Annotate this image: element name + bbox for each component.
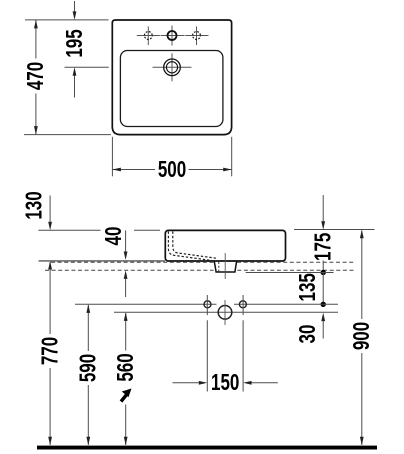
- dim 900: dimension line: [361, 231, 363, 446]
- faucet hole left (dashed, optional): [144, 32, 152, 40]
- drain outlet vertical centre line: [224, 300, 226, 325]
- dim 590: dimension line: [87, 305, 89, 445]
- basin inner bowl (plan): [120, 51, 222, 127]
- dashed reference line A: [51, 261, 355, 263]
- dim 770: bottom arrowhead: [48, 437, 52, 446]
- fixing hole vertical / 150 extension left: [206, 295, 208, 392]
- elevation top extension line (left, with gap for 40 label): [38, 229, 160, 231]
- svg-text:500: 500: [158, 158, 186, 183]
- dim 150: left outside arrow: [173, 382, 199, 384]
- adjustable-height bold arrow symbol: [121, 394, 128, 402]
- dim 30: lower outside arrow: [322, 321, 324, 339]
- faucet hole centre: [168, 31, 177, 40]
- dim 40: lower outside arrow: [125, 279, 127, 297]
- node: fixing hole level (dot): [321, 302, 326, 307]
- dim 470: dimension line: [35, 20, 37, 135]
- tailpiece hidden dashed line: [218, 262, 220, 272]
- dim 560: dimension line: [125, 313, 127, 445]
- dim 195: lower outside arrow: [74, 76, 76, 98]
- bowl hidden profile dashed line 2: [173, 232, 218, 259]
- node: siphon outlet level (dot): [321, 270, 326, 275]
- faucet hole right (dashed, optional): [193, 32, 201, 40]
- svg-text:560: 560: [114, 353, 139, 381]
- faucet hole centre cross lines: [137, 26, 209, 46]
- basin body (elevation): [165, 230, 285, 261]
- dim 195: lower extension line: [65, 66, 109, 68]
- drain cross lines (plan): [153, 53, 192, 81]
- svg-text:40: 40: [101, 227, 126, 246]
- dim 130: upper outside arrow: [49, 196, 51, 222]
- bowl hidden profile dashed line 1: [168, 232, 216, 262]
- dim 40: upper outside arrow: [125, 230, 127, 252]
- dim 195: upper outside arrow: [74, 1, 76, 11]
- dim 900: bottom arrowhead: [360, 437, 364, 446]
- dim 470: bottom extension line: [24, 134, 111, 136]
- drain tailpiece (elevation): [214, 261, 236, 272]
- outlet level line: [246, 272, 334, 274]
- fixing hole vertical / 150 extension right: [242, 295, 244, 392]
- dim 135: dimension line: [322, 273, 324, 305]
- fixing hole left (elevation): [204, 301, 211, 308]
- dashed reference line B: [45, 269, 354, 271]
- dim 900: top arrowhead: [360, 230, 364, 239]
- dim 470: top arrowhead: [34, 20, 38, 29]
- dim 500: right arrowhead: [223, 168, 232, 172]
- dim 560: top arrowhead: [124, 312, 128, 321]
- fixing hole right (elevation): [239, 301, 246, 308]
- svg-text:470: 470: [24, 62, 49, 90]
- dim 770: top arrowhead: [48, 261, 52, 270]
- svg-text:770: 770: [38, 337, 63, 365]
- drain outer circle (plan): [164, 59, 181, 76]
- svg-text:195: 195: [62, 29, 87, 57]
- elevation top extension line (right): [294, 229, 375, 231]
- floor line: [37, 446, 377, 450]
- svg-text:900: 900: [350, 322, 375, 350]
- fixing holes level line: [75, 303, 338, 305]
- dim 590: top arrowhead: [86, 304, 90, 313]
- dim 560: bottom arrowhead: [124, 437, 128, 446]
- dim 500: dimension line: [112, 169, 231, 171]
- dim 500: right extension line: [231, 137, 233, 177]
- dim 770: dimension line: [49, 262, 51, 445]
- drain level line: [114, 311, 338, 313]
- svg-text:150: 150: [211, 371, 239, 396]
- dim 500: left extension line: [111, 137, 113, 177]
- svg-text:590: 590: [76, 354, 101, 382]
- svg-text:175: 175: [311, 233, 336, 261]
- dim 500: left arrowhead: [112, 168, 121, 172]
- svg-text:130: 130: [22, 191, 47, 219]
- drain inner circle (plan): [166, 62, 177, 73]
- dim 175: line from label to node: [322, 261, 324, 273]
- tailpiece centre line: [224, 253, 226, 279]
- basin outer rim (plan): [112, 20, 231, 135]
- dim 590: bottom arrowhead: [86, 437, 90, 446]
- svg-text:135: 135: [296, 273, 321, 301]
- dim 150: right outside arrow: [252, 382, 278, 384]
- dim 470: top extension line: [25, 19, 109, 21]
- dim 470: bottom arrowhead: [34, 126, 38, 135]
- dim 175: upper outside arrow: [322, 195, 324, 222]
- drain outlet circle (elevation): [218, 306, 232, 320]
- counter solid line: [39, 260, 166, 262]
- svg-text:30: 30: [295, 325, 320, 344]
